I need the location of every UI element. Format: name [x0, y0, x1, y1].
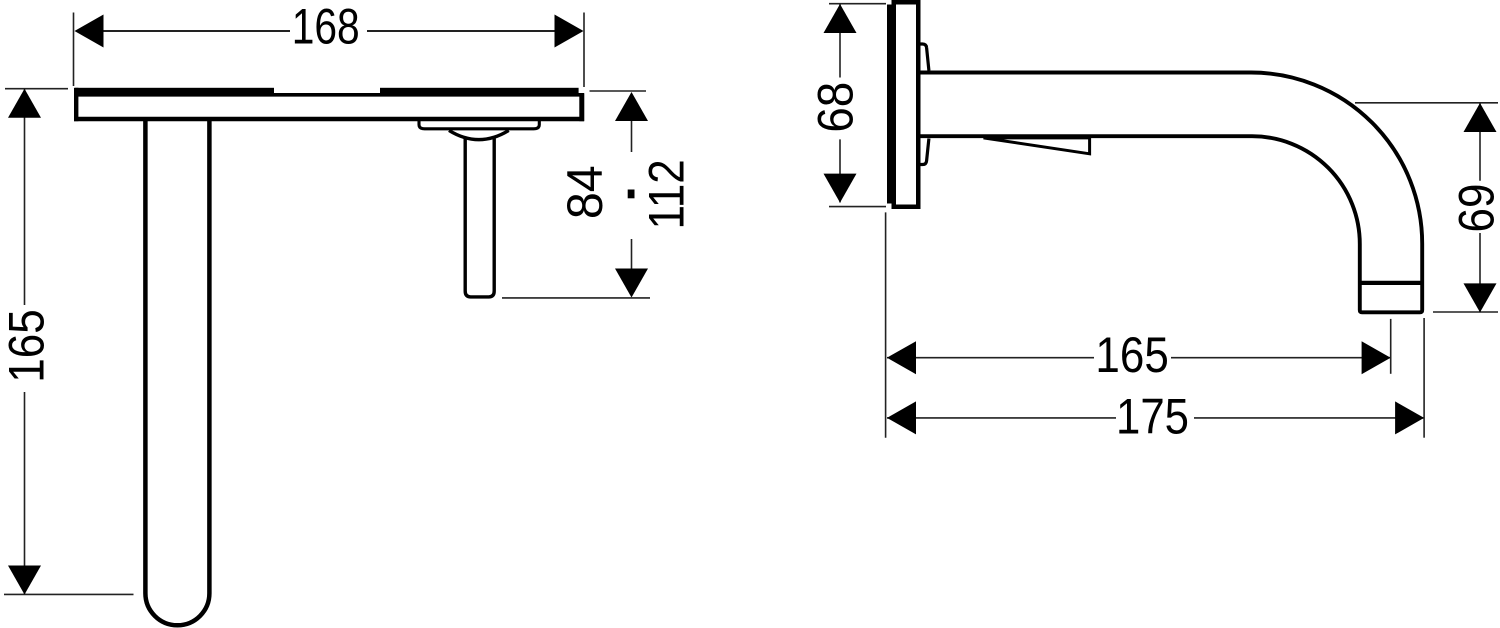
svg-text:112: 112 — [638, 159, 694, 229]
dim 69 line — [1479, 103, 1481, 312]
dim 69 top ext — [1355, 102, 1498, 104]
spout collar bottom — [917, 139, 929, 165]
joystick base bulge arc — [449, 130, 509, 139]
plate lip strip left — [75, 88, 274, 94]
dim 69 bottom ext — [1433, 311, 1498, 313]
dim 165 arrow up — [8, 89, 41, 118]
dim 175 arrow left — [887, 401, 916, 434]
dim 168 arrow right — [555, 15, 584, 48]
escutcheon block — [894, 2, 919, 207]
dim 69 arrow up — [1464, 103, 1497, 132]
dim 84-112 line upper — [631, 121, 633, 152]
plate top edge — [74, 93, 584, 97]
dim 68 bottom ext — [829, 206, 886, 208]
handle bar — [145, 121, 209, 625]
dim 68 arrow down — [824, 174, 857, 203]
dim 175 arrow right — [1395, 401, 1424, 434]
dim 68 arrow up — [824, 4, 857, 33]
dim 165 (side) arrow left — [887, 341, 916, 374]
svg-text:69: 69 — [1448, 184, 1500, 233]
dim 84-112 arrow up — [615, 92, 648, 121]
dim 68 top ext — [829, 3, 886, 5]
svg-text:175: 175 — [1116, 388, 1189, 444]
dim 68 line — [839, 4, 841, 203]
svg-text:84: 84 — [557, 165, 613, 219]
joystick base escutcheon — [419, 121, 539, 129]
spout outline — [917, 73, 1422, 313]
joystick stem — [465, 138, 494, 297]
dim 175 line — [887, 417, 1424, 419]
dim 168 ext line left — [73, 13, 75, 87]
svg-text:165: 165 — [0, 309, 54, 382]
dim 175 right ext — [1423, 318, 1425, 438]
spout outlet divider — [1358, 281, 1424, 285]
dim 168 arrow left — [75, 15, 104, 48]
plate left edge — [74, 88, 78, 121]
spout collar top — [917, 44, 929, 71]
dim 84-112 dash — [628, 190, 635, 199]
dim 84-112 top ext — [590, 90, 647, 92]
dim 165 (side) right ext — [1390, 319, 1392, 374]
dim 165 (side) line — [887, 357, 1391, 359]
wall flange bar — [887, 5, 894, 204]
dim 165 bottom ext — [4, 593, 134, 595]
dim 69 arrow down — [1464, 283, 1497, 312]
svg-text:68: 68 — [809, 82, 864, 133]
plate right edge — [579, 93, 584, 121]
dim 165 (side) arrow right — [1362, 341, 1391, 374]
dim 165 line — [24, 89, 26, 595]
svg-text:168: 168 — [292, 0, 360, 54]
dim 165 arrow down — [8, 566, 41, 595]
dim 84-112 arrow down — [615, 269, 648, 298]
dim 84-112 bottom ext — [502, 297, 650, 299]
dim 168 line — [100, 30, 558, 32]
dim 168 ext line right — [583, 13, 585, 88]
left shared ext line — [885, 212, 887, 437]
dim 84-112 line lower — [631, 239, 633, 269]
svg-text:165: 165 — [1095, 326, 1168, 382]
dim 165 top ext — [5, 88, 68, 90]
plate lip strip right — [380, 88, 579, 94]
aerator wedge — [984, 138, 1090, 154]
plate bottom edge — [74, 117, 584, 121]
